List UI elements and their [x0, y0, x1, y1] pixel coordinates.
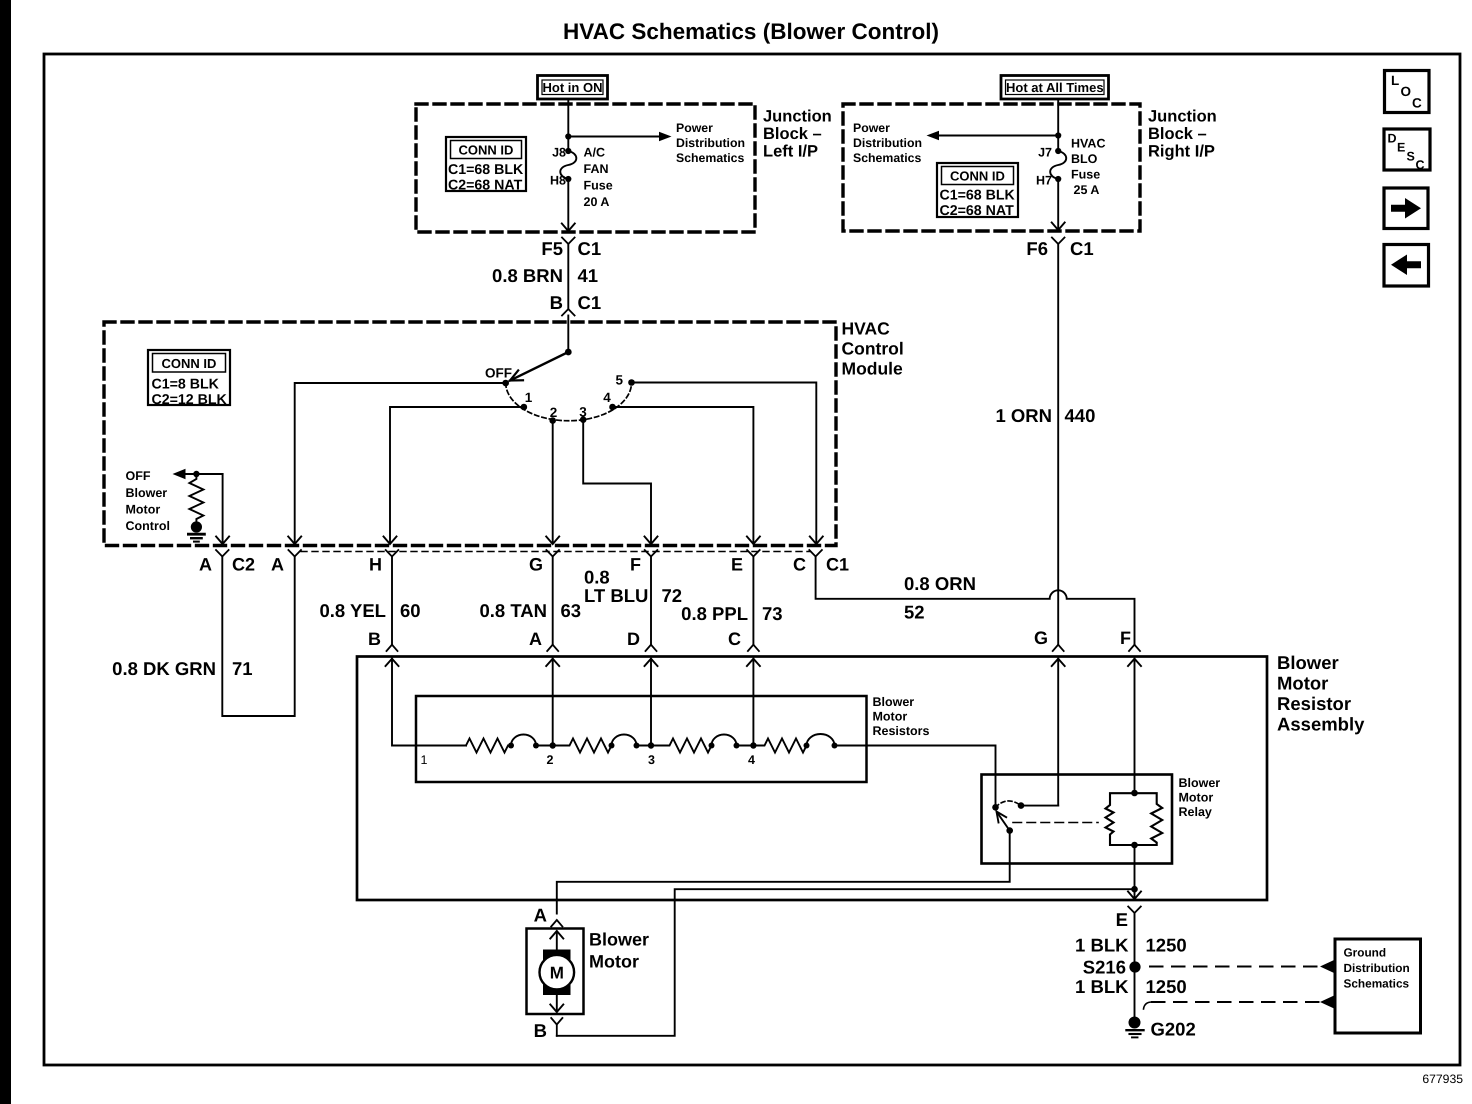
wire from OFF contact to module pin A	[288, 383, 506, 544]
svg-text:Block –: Block –	[763, 125, 822, 143]
connector F5 C1 (fork)	[562, 238, 575, 316]
svg-text:HVAC: HVAC	[842, 319, 891, 339]
motor M circle	[540, 955, 575, 990]
fuse HVAC BLO 25A	[1050, 148, 1066, 182]
svg-text:Power: Power	[676, 121, 713, 135]
svg-text:1: 1	[525, 390, 533, 405]
svg-text:71: 71	[232, 658, 253, 679]
wire 1 ORN 440 down to blower resistor G	[1057, 244, 1059, 645]
svg-text:3: 3	[648, 753, 655, 767]
svg-text:C1=8 BLK: C1=8 BLK	[152, 377, 220, 393]
wire coil bottom to E junction	[1134, 845, 1136, 890]
wire 0.8 DK GRN 71 loop	[222, 557, 294, 717]
relay contact dot to G wire	[1018, 802, 1025, 809]
svg-text:CONN ID: CONN ID	[162, 356, 217, 371]
svg-text:C1=68 BLK: C1=68 BLK	[448, 162, 524, 178]
svg-text:41: 41	[578, 265, 599, 286]
Hot in ON box	[538, 76, 608, 100]
switch contact 5	[628, 379, 635, 386]
svg-text:Power: Power	[853, 121, 890, 135]
svg-text:E: E	[1116, 909, 1128, 930]
svg-text:0.8 TAN: 0.8 TAN	[479, 600, 547, 621]
OFF blower motor control: arrow left	[173, 469, 223, 479]
svg-text:B: B	[534, 1020, 547, 1041]
blower motor resistor assembly box	[357, 657, 1267, 901]
wire resistor chain to relay common	[835, 746, 996, 808]
svg-text:Distribution: Distribution	[853, 136, 922, 150]
SCAN_EDGE	[0, 0, 11, 1104]
fuse A/C FAN 20A	[560, 148, 576, 182]
wire B C1 into HVAC module	[567, 316, 569, 353]
connector pin A C1 (fork)	[288, 550, 301, 557]
svg-text:Fuse: Fuse	[1071, 168, 1100, 182]
relay switch blade with arrowhead	[997, 812, 1010, 831]
node 3 junction dot	[648, 742, 654, 748]
wire blower control to module pin A(C2)	[216, 474, 229, 544]
connector pin G (fork) at resistor assembly right	[1053, 645, 1064, 651]
label HVAC Control Module	[842, 319, 904, 379]
svg-text:A/C: A/C	[584, 146, 606, 160]
connector pin H (fork)	[386, 550, 399, 557]
label F6 / C1	[1026, 238, 1093, 259]
svg-text:1250: 1250	[1146, 976, 1187, 997]
connector ID table module	[148, 350, 230, 408]
svg-text:1 ORN: 1 ORN	[995, 405, 1052, 426]
svg-text:HVAC Schematics (Blower Contro: HVAC Schematics (Blower Control)	[563, 19, 939, 44]
svg-text:C2: C2	[232, 555, 255, 575]
svg-text:Control: Control	[126, 519, 170, 533]
svg-text:A: A	[529, 629, 542, 649]
svg-text:OFF: OFF	[485, 366, 512, 381]
svg-text:440: 440	[1065, 405, 1096, 426]
svg-text:Motor: Motor	[873, 710, 908, 724]
connector F6 C1 (fork)	[1052, 238, 1065, 245]
svg-text:O: O	[1401, 84, 1412, 99]
blower motor relay box	[982, 775, 1173, 864]
relay coil	[1106, 790, 1163, 849]
junction block left I/P dashed box	[416, 104, 755, 232]
svg-text:C2=68 NAT: C2=68 NAT	[940, 203, 1015, 219]
splice S216 dot	[1129, 961, 1140, 972]
connector pin E (fork) below box	[1128, 907, 1141, 1019]
svg-text:Distribution: Distribution	[676, 136, 745, 150]
switch contact 3	[580, 416, 587, 423]
connector pin E (fork)	[747, 550, 760, 557]
resistor element 1-2	[466, 735, 553, 753]
svg-text:73: 73	[762, 603, 783, 624]
svg-text:Blower: Blower	[1277, 652, 1339, 673]
connector pin G (fork)	[546, 550, 559, 557]
svg-text:D: D	[627, 629, 640, 649]
svg-text:Junction: Junction	[763, 108, 832, 126]
label Blower Motor Resistors	[873, 695, 930, 738]
svg-text:Motor: Motor	[126, 503, 161, 517]
svg-text:BLO: BLO	[1071, 152, 1098, 166]
label Blower Motor	[589, 930, 649, 972]
blower motor resistors inner box	[416, 696, 867, 782]
svg-text:63: 63	[561, 600, 582, 621]
svg-text:C: C	[728, 629, 741, 649]
svg-text:677935: 677935	[1422, 1072, 1463, 1086]
svg-text:G: G	[1034, 628, 1048, 648]
label Blower Motor Relay	[1179, 776, 1221, 819]
junction block right I/P dashed box	[843, 104, 1140, 231]
svg-text:Schematics: Schematics	[853, 151, 922, 165]
svg-text:Ground: Ground	[1344, 946, 1387, 960]
svg-text:C: C	[1416, 158, 1425, 172]
wire from contact 1 to module pin H	[384, 407, 524, 544]
HVAC control module dashed box	[104, 322, 836, 546]
svg-text:A: A	[199, 555, 212, 575]
label Junction Block - Left I/P	[763, 108, 832, 161]
svg-text:0.8 YEL: 0.8 YEL	[319, 600, 386, 621]
svg-text:C2=68 NAT: C2=68 NAT	[448, 178, 523, 194]
resistor element 2-3	[553, 735, 651, 753]
connector pin D (fork) at resistor assembly	[646, 645, 657, 651]
svg-text:A: A	[271, 555, 284, 575]
wire relay contact to G	[1021, 805, 1058, 807]
svg-text:S: S	[1407, 150, 1415, 164]
svg-text:F: F	[1120, 628, 1131, 648]
svg-text:E: E	[731, 555, 743, 575]
svg-text:H8: H8	[550, 174, 566, 188]
svg-text:H7: H7	[1036, 174, 1052, 188]
node 4 junction dot	[750, 742, 756, 748]
wire G into box with arrow (to relay)	[1052, 659, 1065, 806]
svg-text:D: D	[1388, 132, 1397, 146]
switch blade arm with arrowhead toward OFF	[510, 352, 568, 381]
motor brush top	[543, 950, 571, 964]
switch dashed travel arc	[506, 383, 632, 421]
connector fork A above motor	[551, 920, 562, 927]
svg-text:J8: J8	[552, 146, 566, 160]
wire from contact 3 to module pin F	[583, 420, 657, 544]
wire G to A	[552, 557, 554, 645]
node dot at resistor top	[193, 471, 199, 477]
svg-text:1 BLK: 1 BLK	[1075, 976, 1129, 997]
svg-text:E: E	[1397, 141, 1405, 155]
wire 0.8 ORN 52 with hop over 1 ORN wire	[816, 557, 1135, 645]
ground distribution schematics box	[1335, 939, 1421, 1033]
svg-text:Hot in ON: Hot in ON	[543, 80, 603, 95]
dashed reference G202 to ground distribution	[1144, 996, 1334, 1009]
svg-text:2: 2	[547, 753, 554, 767]
svg-text:52: 52	[904, 602, 925, 623]
wire from contact 4 to module pin E	[613, 407, 760, 544]
connector pin F (fork) at resistor assembly right	[1129, 645, 1140, 651]
text Power Distribution Schematics (right JB)	[853, 121, 922, 165]
svg-text:L: L	[1391, 73, 1399, 88]
svg-text:Block –: Block –	[1148, 125, 1207, 143]
connector pin A C2 (fork)	[216, 550, 229, 557]
svg-text:Blower: Blower	[1179, 776, 1221, 790]
wire fuse to JB boundary with arrow	[562, 179, 575, 231]
svg-text:20 A: 20 A	[584, 195, 610, 209]
connector fork B below motor	[551, 1018, 562, 1036]
svg-text:C: C	[793, 555, 806, 575]
svg-text:G202: G202	[1151, 1019, 1196, 1040]
label C / C1	[793, 555, 849, 575]
svg-text:C1: C1	[578, 238, 602, 259]
svg-text:Assembly: Assembly	[1277, 714, 1365, 735]
connector pin C C1 (fork)	[809, 550, 822, 557]
module connector row thin dashed line C1	[301, 551, 810, 553]
label A / C2	[199, 555, 255, 575]
wire H to B	[391, 557, 393, 645]
wire arrow to Power Distribution Schematics (left JB)	[568, 132, 671, 142]
label Blower Motor Resistor Assembly	[1277, 652, 1365, 735]
svg-text:HVAC: HVAC	[1071, 137, 1106, 151]
text OFF Blower Motor Control	[126, 469, 170, 533]
svg-text:B: B	[550, 292, 563, 313]
svg-text:OFF: OFF	[126, 469, 151, 483]
node 2 junction dot	[550, 742, 556, 748]
connector pin B (fork) at resistor assembly	[387, 645, 398, 651]
motor brush bottom	[543, 982, 571, 996]
ground terminal dot inside module	[191, 521, 202, 532]
svg-text:C: C	[1412, 96, 1422, 111]
connector pin F (fork)	[645, 550, 658, 557]
svg-text:Schematics: Schematics	[676, 151, 745, 165]
svg-text:Fuse: Fuse	[584, 179, 613, 193]
wire label 0.8 LT BLU 72	[584, 567, 682, 607]
svg-text:4: 4	[603, 390, 611, 405]
svg-text:0.8 PPL: 0.8 PPL	[681, 603, 748, 624]
node junction dot on feed wire	[565, 133, 571, 139]
wire label 0.8 YEL 60	[319, 600, 420, 621]
ground G202 symbol	[1127, 1017, 1144, 1038]
dashed reference S216 to ground distribution	[1150, 960, 1334, 973]
svg-text:Relay: Relay	[1179, 805, 1212, 819]
wire blower motor B loop to E junction	[557, 889, 1135, 1036]
resistor blower motor control (vertical zigzag)	[189, 474, 203, 522]
svg-text:J7: J7	[1038, 146, 1052, 160]
svg-text:A: A	[534, 905, 547, 926]
connector ID table left JB	[446, 137, 526, 194]
svg-text:C2=12 BLK: C2=12 BLK	[152, 392, 228, 408]
fuse value label HVAC BLO Fuse 25 A	[1071, 137, 1106, 198]
svg-text:60: 60	[400, 600, 421, 621]
svg-text:Right I/P: Right I/P	[1148, 143, 1215, 161]
svg-text:5: 5	[615, 373, 623, 388]
sidebar button back-arrow	[1384, 245, 1429, 287]
svg-text:Resistors: Resistors	[873, 724, 930, 738]
sidebar button LOC	[1385, 71, 1430, 113]
wire label 0.8 ORN / 52	[904, 573, 976, 623]
svg-text:C1: C1	[826, 555, 849, 575]
label Junction Block - Right I/P	[1148, 108, 1217, 161]
svg-text:B: B	[368, 629, 381, 649]
svg-text:C1: C1	[578, 292, 602, 313]
connector pin A (fork) at resistor assembly	[547, 645, 558, 651]
connector ID table right JB	[937, 163, 1018, 219]
svg-text:3: 3	[579, 405, 587, 420]
svg-text:Junction: Junction	[1148, 108, 1217, 126]
junction dot S-point at E	[1131, 886, 1138, 893]
sidebar button DESC	[1384, 129, 1430, 172]
resistor element 4-end	[753, 734, 837, 753]
svg-text:S216: S216	[1083, 957, 1126, 978]
relay blade pivot dot	[1006, 827, 1013, 834]
svg-text:F: F	[630, 555, 641, 575]
svg-text:Distribution: Distribution	[1344, 961, 1410, 975]
svg-text:1 BLK: 1 BLK	[1075, 935, 1129, 956]
svg-text:G: G	[529, 555, 543, 575]
svg-text:1250: 1250	[1146, 935, 1187, 956]
svg-text:Blower: Blower	[589, 930, 649, 950]
svg-text:2: 2	[550, 405, 558, 420]
svg-text:H: H	[369, 555, 382, 575]
svg-text:Hot at All Times: Hot at All Times	[1006, 80, 1104, 95]
svg-text:0.8 BRN: 0.8 BRN	[492, 265, 563, 286]
relay dashed contact travel arc	[996, 801, 1022, 807]
node junction dot on right feed wire	[1055, 132, 1061, 138]
svg-text:Schematics: Schematics	[1344, 977, 1410, 991]
svg-text:F5: F5	[541, 238, 563, 259]
switch contact 2	[549, 417, 556, 424]
relay dashed actuation link	[1013, 822, 1098, 824]
svg-text:Module: Module	[842, 359, 904, 379]
svg-text:4: 4	[748, 753, 755, 767]
ground symbol inside module	[188, 534, 204, 541]
wire arrow to Power Distribution Schematics (right JB)	[927, 131, 1059, 141]
svg-text:0.8 DK GRN: 0.8 DK GRN	[112, 658, 216, 679]
blower motor box	[527, 929, 584, 1015]
motor lead arrow down	[550, 990, 563, 1013]
svg-text:Resistor: Resistor	[1277, 693, 1351, 714]
wire label 1 BLK 1250 (upper)	[1075, 935, 1187, 956]
svg-text:Blower: Blower	[873, 695, 915, 709]
switch common node dot	[565, 349, 572, 356]
wire E out of box with arrow	[1128, 889, 1141, 899]
wire from Hot at All Times down to fuse J7	[1057, 99, 1059, 151]
wire D into box with arrow	[645, 659, 658, 746]
svg-text:Motor: Motor	[1179, 791, 1214, 805]
svg-text:25 A: 25 A	[1074, 183, 1100, 197]
svg-text:0.8 ORN: 0.8 ORN	[904, 573, 976, 594]
wire C into box with arrow	[747, 659, 760, 746]
Hot at All Times box	[1001, 76, 1109, 100]
motor lead arrow up	[550, 931, 563, 955]
wire label 0.8 BRN 41	[492, 265, 598, 286]
wire A into box with arrow	[546, 659, 559, 746]
svg-text:FAN: FAN	[584, 162, 609, 176]
svg-text:Motor: Motor	[589, 952, 639, 972]
svg-text:72: 72	[662, 585, 683, 606]
wire B into box with arrow	[386, 659, 467, 746]
svg-text:LT BLU: LT BLU	[584, 585, 648, 606]
label B / C1	[550, 292, 602, 313]
text Power Distribution Schematics (left JB)	[676, 121, 745, 165]
wire F into box with arrow (to relay coil)	[1128, 659, 1141, 793]
wire from contact 2 to module pin G	[546, 421, 559, 545]
wire label 0.8 PPL 73	[681, 603, 782, 624]
switch contact 1	[521, 404, 528, 411]
wire E to C	[752, 557, 754, 645]
wire label 0.8 TAN 63	[479, 600, 581, 621]
svg-text:F6: F6	[1026, 238, 1048, 259]
fuse value label A/C FAN Fuse 20 A	[584, 146, 613, 210]
wire from Hot in ON down to fuse J8	[567, 99, 569, 151]
svg-text:C1=68 BLK: C1=68 BLK	[940, 188, 1016, 204]
svg-text:Blower: Blower	[126, 486, 168, 500]
wire label 1 ORN 440	[995, 405, 1095, 426]
svg-text:Control: Control	[842, 339, 904, 359]
svg-text:M: M	[550, 964, 564, 983]
wire F to D	[650, 557, 652, 645]
svg-text:C1: C1	[1070, 238, 1094, 259]
sidebar button forward-arrow	[1384, 188, 1428, 229]
connector pin C (fork) at resistor assembly	[748, 645, 759, 651]
wire label 1 BLK 1250 (lower)	[1075, 976, 1187, 997]
svg-text:CONN ID: CONN ID	[459, 143, 514, 158]
switch contact 4	[609, 404, 616, 411]
relay common contact dot	[992, 804, 999, 811]
svg-text:Left I/P: Left I/P	[763, 143, 818, 161]
resistor element 3-4	[651, 735, 753, 753]
svg-text:CONN ID: CONN ID	[950, 169, 1005, 184]
wire fuse to right JB boundary with arrow	[1052, 179, 1065, 230]
svg-text:1: 1	[421, 753, 428, 767]
label F5 / C1	[541, 238, 601, 259]
wire from contact 5 to module pin C	[632, 383, 823, 545]
wire label 0.8 DK GRN 71	[112, 658, 252, 679]
svg-text:Motor: Motor	[1277, 673, 1328, 694]
switch contact OFF	[502, 380, 509, 387]
wire relay pivot to blower motor A	[557, 831, 1010, 914]
